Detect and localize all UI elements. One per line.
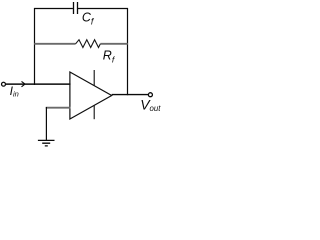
- wire output: [112, 94, 149, 96]
- current arrow Iin: [22, 81, 26, 86]
- op-amp U1 triangle: [70, 72, 112, 119]
- resistor Rf zigzag: [76, 40, 101, 48]
- op-amp U1 positive supply pin: [93, 70, 95, 86]
- svg-text:Iin: Iin: [10, 84, 19, 99]
- svg-text:Rf: Rf: [103, 49, 116, 65]
- wire right bus: [127, 8, 129, 95]
- wire resistor row right: [100, 43, 127, 45]
- wire input: [6, 83, 71, 85]
- ground symbol bars: [38, 140, 55, 146]
- wire left bus: [34, 8, 36, 85]
- wire resistor row left: [34, 43, 75, 45]
- node input terminal circle: [2, 82, 6, 86]
- capacitor Cf plates: [74, 2, 78, 14]
- wire ground stem: [45, 107, 47, 140]
- wire top feedback (right segment): [78, 8, 128, 10]
- node output terminal circle: [148, 93, 152, 97]
- svg-text:Vout: Vout: [140, 97, 161, 113]
- svg-text:Cf: Cf: [82, 11, 95, 27]
- wire top feedback (left segment): [34, 8, 73, 10]
- op-amp U1 negative supply pin: [93, 105, 95, 119]
- wire noninverting input: [46, 107, 71, 109]
